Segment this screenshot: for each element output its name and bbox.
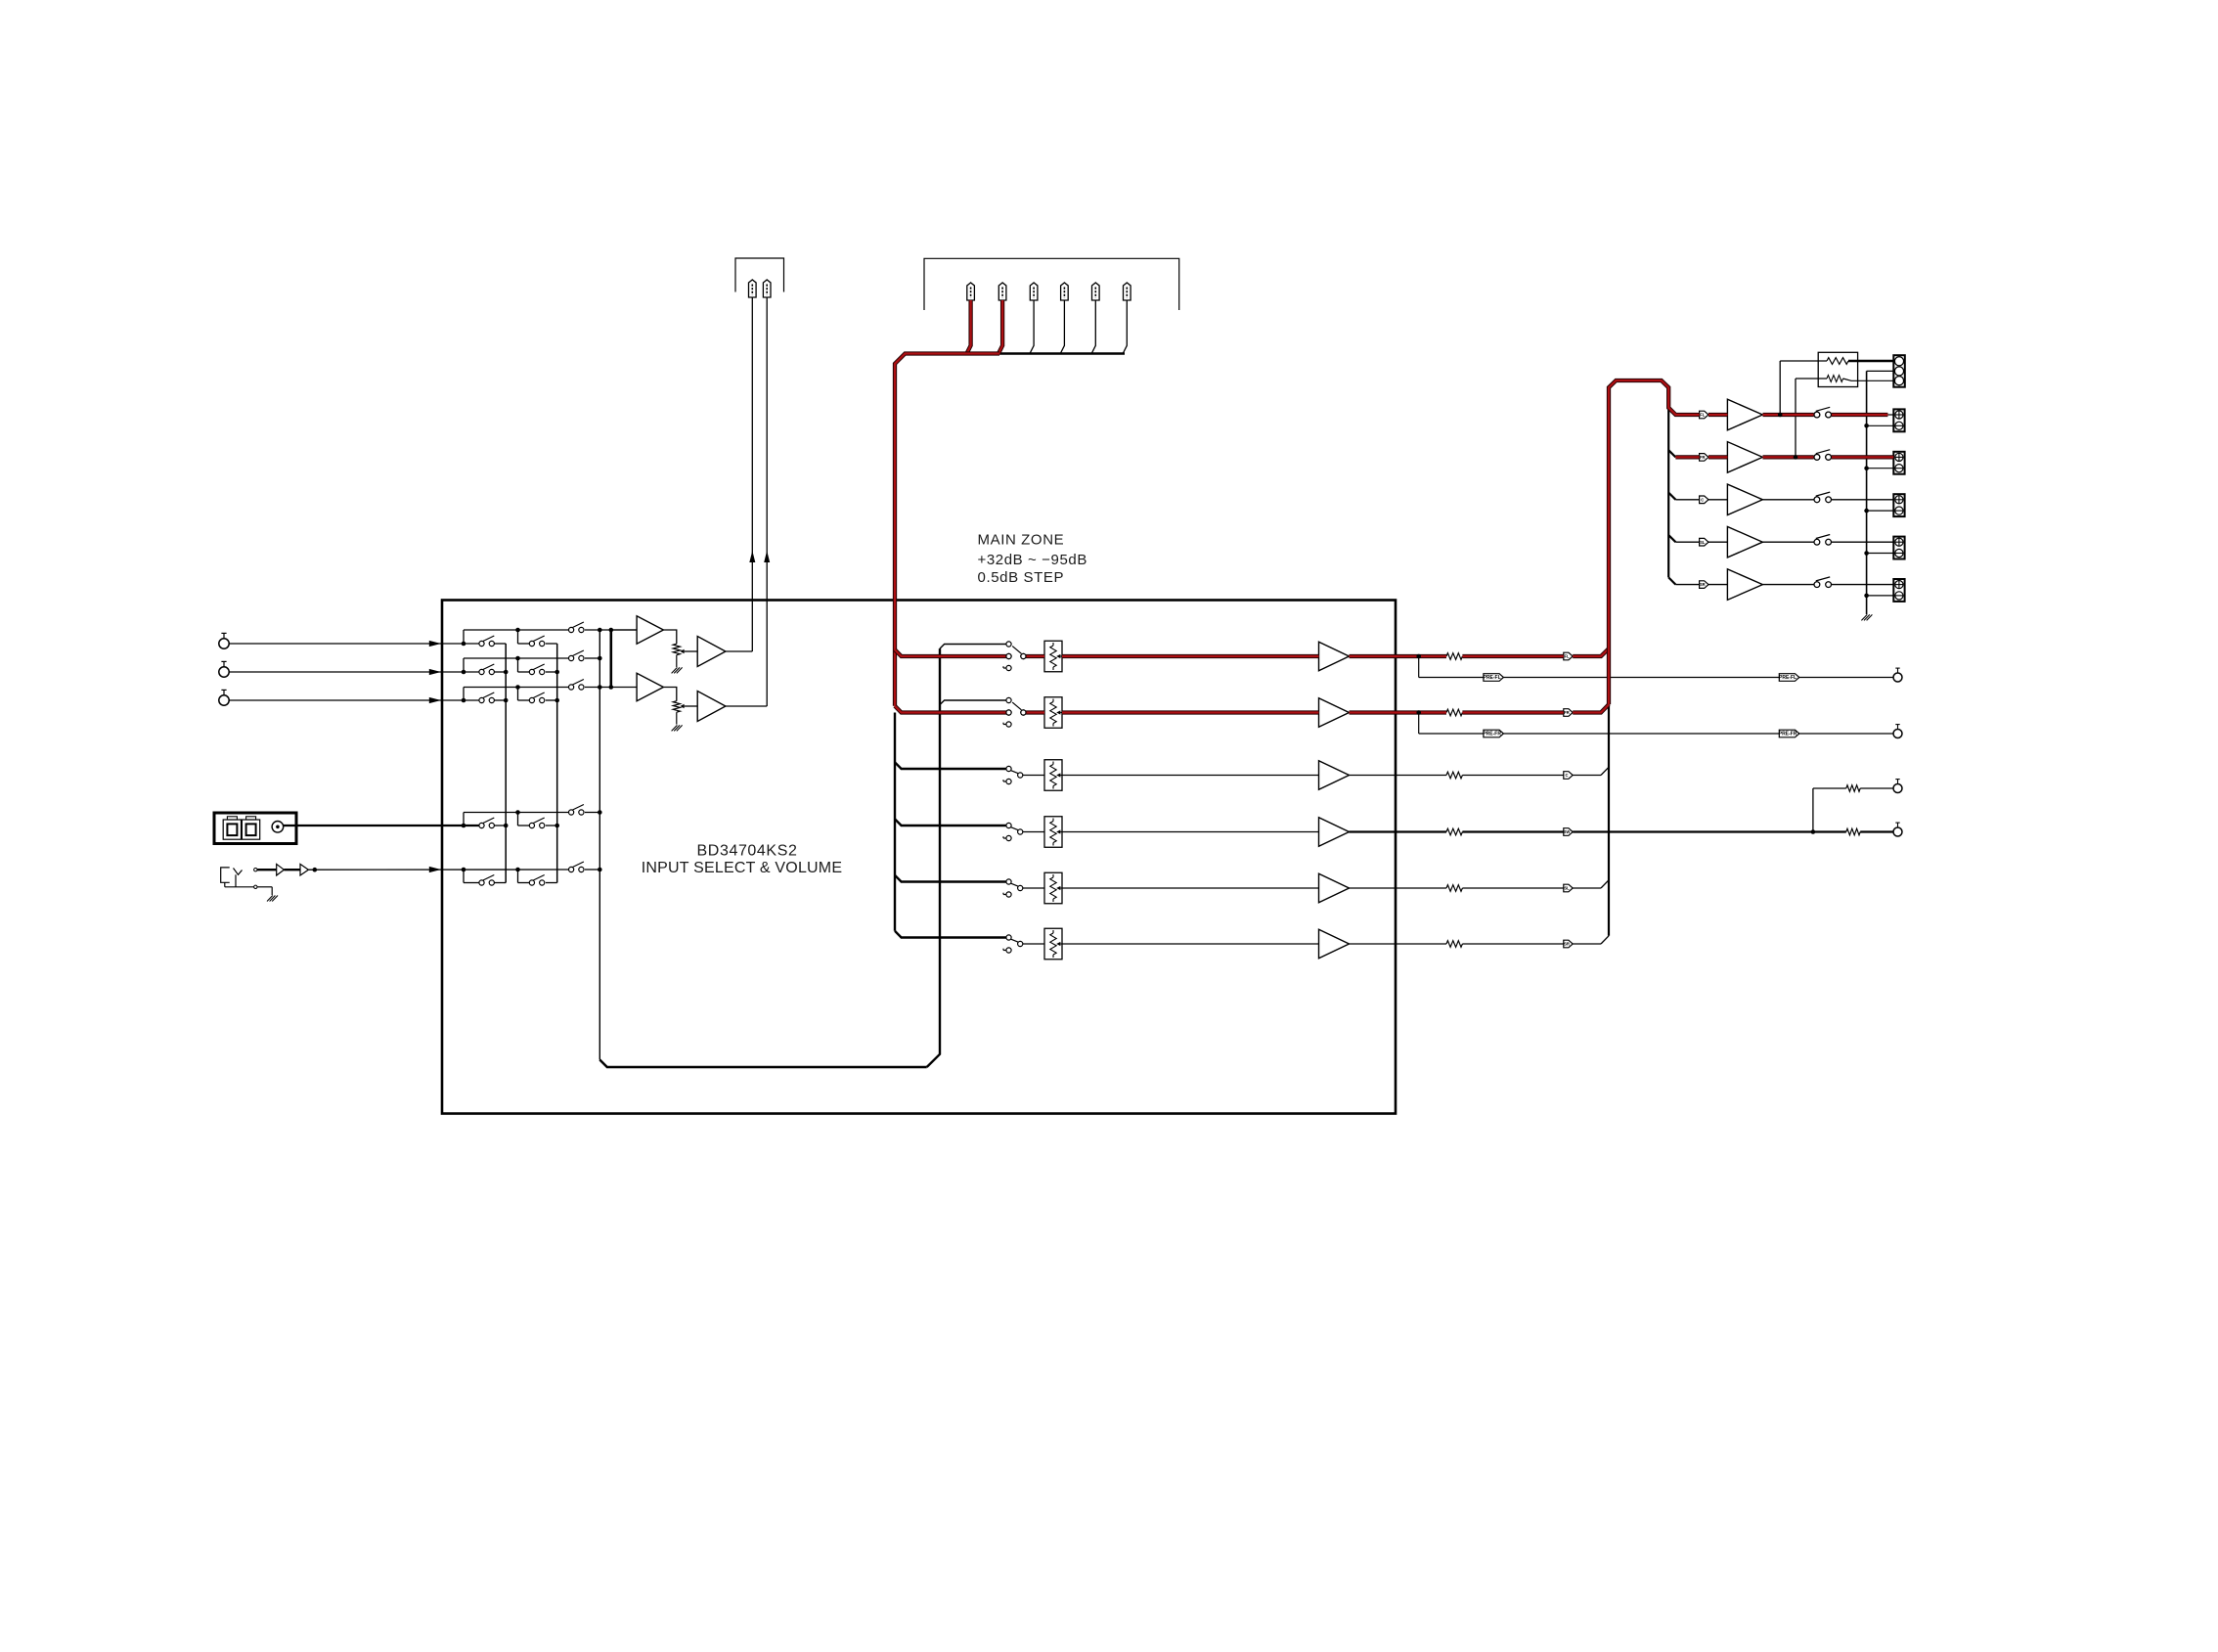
svg-text:SL: SL	[1564, 886, 1570, 891]
svg-text:PRE-FL: PRE-FL	[1779, 675, 1797, 681]
svg-text:SW: SW	[1564, 829, 1571, 834]
svg-text:SR: SR	[1564, 942, 1570, 947]
svg-text:FL: FL	[1700, 413, 1706, 418]
svg-text:C: C	[1701, 497, 1704, 502]
svg-text:+32dB ~ −95dB: +32dB ~ −95dB	[978, 552, 1087, 568]
svg-text:FR: FR	[1564, 710, 1570, 715]
svg-text:SL: SL	[1700, 540, 1706, 545]
svg-text:FR: FR	[1700, 455, 1706, 460]
svg-text:BD34704KS2: BD34704KS2	[697, 843, 798, 860]
svg-text:INPUT SELECT & VOLUME: INPUT SELECT & VOLUME	[642, 860, 842, 876]
svg-text:FL: FL	[1564, 654, 1570, 659]
svg-text:MAIN ZONE: MAIN ZONE	[978, 532, 1065, 549]
svg-text:C: C	[1565, 773, 1568, 778]
svg-text:PRE-FR: PRE-FR	[1779, 732, 1797, 737]
svg-text:PRE-FL: PRE-FL	[1484, 675, 1501, 681]
svg-text:SR: SR	[1700, 582, 1706, 587]
svg-text:PRE-FR: PRE-FR	[1483, 732, 1501, 737]
svg-text:0.5dB STEP: 0.5dB STEP	[978, 569, 1065, 586]
